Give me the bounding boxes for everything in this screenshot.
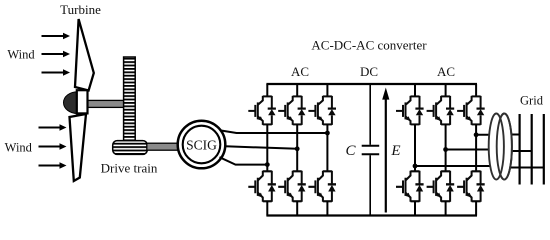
grid bus bar 1 [518, 114, 520, 185]
turbine hub nose [63, 92, 77, 114]
node phase a grid-side [474, 132, 479, 137]
wire leg 2 upper drop [296, 84, 298, 96]
wire leg 3 middle [326, 124, 328, 171]
wire transformer to grid bus 1 [503, 134, 520, 136]
wire grid-side phase b to transformer [446, 149, 499, 151]
wire grid-side phase a to transformer [476, 134, 498, 136]
wind arrow 5 [39, 143, 67, 149]
wire leg 2 lower drop [296, 201, 298, 216]
node phase c grid-side [413, 164, 418, 169]
wire leg 2 middle [296, 124, 298, 171]
svg-text:Wind: Wind [5, 140, 33, 154]
wire SCIG phase b to machine-side leg 2 [225, 146, 297, 149]
IGBT S8 grid-side lower leg 3 [457, 171, 485, 202]
svg-text:Turbine: Turbine [60, 2, 101, 17]
svg-text:SCIG: SCIG [186, 137, 217, 152]
grid bus bar 2 [531, 114, 533, 185]
turbine blade (lower) [70, 114, 87, 181]
wire SCIG phase a to machine-side leg 3 [221, 131, 327, 134]
wire DC bus positive rail [266, 83, 477, 85]
wire leg 1 middle [266, 124, 268, 171]
wire leg 5 middle [445, 124, 447, 171]
wire DC bus negative rail [266, 214, 477, 216]
capacitor C plates [362, 146, 380, 155]
wire leg 5 upper drop [445, 84, 447, 96]
IGBT S9 grid-side upper leg 2 [427, 96, 455, 125]
IGBT S11 grid-side upper leg 3 [457, 96, 485, 125]
IGBT S10 grid-side lower leg 1 [396, 171, 424, 202]
turbine hub body [77, 90, 88, 113]
svg-text:Wind: Wind [7, 48, 35, 62]
capacitor C top lead [369, 84, 371, 145]
node phase a machine-side [325, 131, 330, 136]
IGBT S5 machine-side upper leg 3 [308, 96, 336, 125]
IGBT S6 machine-side lower leg 2 [278, 171, 306, 202]
wire transformer to grid bus 2 [503, 150, 532, 152]
gearbox vertical rack [124, 57, 136, 141]
svg-text:DC: DC [360, 64, 378, 79]
generator SCIG inner circle [183, 126, 221, 164]
svg-text:Grid: Grid [520, 94, 544, 108]
wire leg 1 upper drop [266, 84, 268, 96]
wind arrow 3 [42, 69, 71, 75]
grid bus bar 3 [543, 114, 545, 185]
wire grid-side phase c to transformer [415, 165, 500, 167]
gearbox horizontal gear [113, 141, 148, 155]
node phase c machine-side [265, 162, 270, 167]
IGBT S12 grid-side lower leg 2 [427, 171, 455, 202]
low-speed shaft [87, 100, 125, 107]
generator SCIG outer circle [178, 121, 226, 169]
svg-text:Drive train: Drive train [101, 161, 158, 176]
wire SCIG phase c to machine-side leg 1 [220, 157, 268, 164]
transformer winding (secondary outline) [497, 114, 512, 180]
svg-text:AC: AC [291, 64, 309, 79]
wind arrow 4 [39, 124, 67, 130]
wire leg 6 upper drop [475, 84, 477, 96]
IGBT S7 grid-side upper leg 1 [396, 96, 424, 125]
wire leg 6 middle [475, 124, 477, 171]
wire transformer to grid bus 3 [503, 167, 544, 169]
wire leg 5 lower drop [445, 201, 447, 216]
DC voltage arrow E [382, 88, 389, 213]
wire leg 4 middle [414, 124, 416, 171]
wind arrow 2 [42, 51, 71, 57]
IGBT S1 machine-side upper leg 1 [248, 96, 276, 125]
wind arrow 6 [39, 162, 67, 168]
svg-text:C: C [345, 143, 356, 159]
node phase b machine-side [295, 146, 300, 151]
wind arrow 1 [42, 33, 71, 39]
turbine blade (upper) [75, 19, 94, 91]
svg-text:AC-DC-AC converter: AC-DC-AC converter [311, 38, 427, 53]
wire leg 4 lower drop [414, 201, 416, 216]
capacitor C bottom lead [369, 155, 371, 215]
transformer winding (secondary) [497, 114, 512, 180]
wire leg 3 lower drop [326, 201, 328, 216]
svg-text:AC: AC [437, 64, 455, 79]
svg-text:E: E [390, 143, 400, 159]
transformer winding (primary) [489, 114, 504, 180]
IGBT S3 machine-side upper leg 2 [278, 96, 306, 125]
wire leg 6 lower drop [475, 201, 477, 216]
wire leg 4 upper drop [414, 84, 416, 96]
node phase b grid-side [443, 147, 448, 152]
wire leg 3 upper drop [326, 84, 328, 96]
wire leg 1 lower drop [266, 201, 268, 216]
high-speed shaft [147, 143, 179, 150]
IGBT S4 machine-side lower leg 1 [248, 171, 276, 202]
IGBT S2 machine-side lower leg 3 [308, 171, 336, 202]
